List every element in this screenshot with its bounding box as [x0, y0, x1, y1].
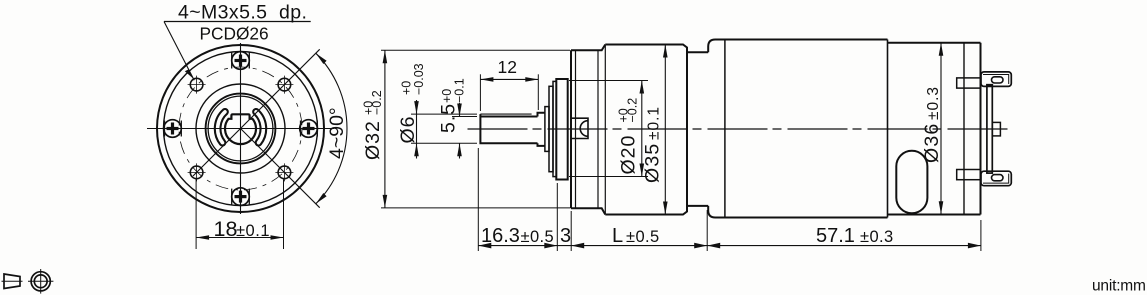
- screw right: [300, 120, 318, 138]
- M3 hole NW: [188, 76, 206, 94]
- motor can front seam: [724, 40, 726, 218]
- diagonal NE-SW construction line: [193, 49, 320, 176]
- svg-text:−0.2: −0.2: [626, 98, 640, 123]
- dimension Ø35 ±0.1: [642, 45, 668, 215]
- dimension 12: [480, 57, 538, 111]
- dimension 18±0.1: [196, 180, 283, 250]
- svg-text:±0.3: ±0.3: [860, 228, 894, 246]
- output shaft wing left: [215, 109, 228, 145]
- svg-text:5.5: 5.5: [438, 103, 460, 133]
- angular dimension 4~90°: [316, 53, 348, 204]
- ext line plate front: [556, 183, 558, 251]
- svg-text:Ø35: Ø35: [642, 143, 664, 183]
- boss ring inner: [208, 96, 273, 161]
- motor can step: [887, 40, 889, 218]
- leader underline for M3 label: [164, 21, 311, 23]
- can end seam: [963, 43, 965, 215]
- motor can end section: [888, 43, 981, 215]
- svg-text:±0.5: ±0.5: [626, 228, 660, 246]
- M3 hole NE: [275, 76, 293, 94]
- ext line motor end: [980, 220, 982, 251]
- can end edge: [980, 43, 982, 215]
- gearbox Ø35 body: [605, 45, 687, 215]
- axis centerline: [468, 128, 1011, 130]
- svg-text:PCDØ26: PCDØ26: [200, 24, 269, 44]
- flange outer circle: [157, 45, 324, 212]
- gearbox Ø32 section outline: [571, 45, 605, 215]
- terminal bottom: [957, 170, 1012, 186]
- spacer disc: [549, 86, 553, 171]
- spacer disc 2: [553, 81, 556, 176]
- screw bottom: [232, 188, 250, 206]
- dimension Ø6 +0/-0.03: [397, 63, 477, 158]
- svg-text:4~90°: 4~90°: [326, 107, 348, 159]
- svg-text:4~M3x5.5 dp.: 4~M3x5.5 dp.: [178, 2, 307, 24]
- svg-text:±0.1: ±0.1: [646, 106, 663, 140]
- boss ring outer: [206, 94, 276, 164]
- dimension 5.5 +0/-0.1: [438, 78, 477, 158]
- terminal top: [957, 72, 1012, 88]
- svg-text:L: L: [612, 225, 623, 247]
- gearbox internal seam 2: [597, 50, 599, 208]
- bottom dimension chain: [478, 148, 981, 251]
- boss circle: [196, 84, 285, 173]
- ext line shaft tip: [477, 148, 479, 251]
- svg-text:57.1: 57.1: [816, 225, 855, 247]
- svg-text:±0.3: ±0.3: [925, 86, 942, 120]
- ext line motor front: [706, 210, 708, 251]
- dimension Ø32 +0/-0.2: [362, 50, 570, 208]
- bearing boss semicircle: [571, 118, 588, 138]
- screw top: [232, 52, 250, 70]
- svg-text:12: 12: [498, 57, 517, 77]
- diagonal SE ray: [241, 129, 320, 208]
- gearbox step seam: [604, 45, 606, 215]
- flange rim circle: [164, 52, 318, 206]
- center bump: [992, 122, 1000, 135]
- vent hole oval: [896, 151, 927, 213]
- svg-text:−0.1: −0.1: [453, 78, 467, 103]
- M3 hole SE: [275, 163, 293, 181]
- first angle projection symbol: circles: [28, 269, 53, 294]
- svg-text:16.3: 16.3: [481, 225, 520, 247]
- svg-text:−0.2: −0.2: [370, 90, 384, 115]
- output shaft wing right: [253, 109, 266, 145]
- gearbox internal seam 1: [575, 50, 577, 208]
- leader line to NW hole: [164, 22, 194, 81]
- motor neck: [687, 52, 708, 206]
- svg-text:±0.5: ±0.5: [521, 228, 555, 246]
- output shaft profile center: [225, 114, 256, 144]
- svg-text:18: 18: [214, 217, 238, 241]
- output shaft side: [480, 113, 545, 146]
- svg-text:3: 3: [560, 225, 571, 247]
- PCD bolt circle (dashed): [179, 67, 302, 190]
- svg-text:unit:mm: unit:mm: [1092, 278, 1146, 295]
- screw left: [164, 120, 182, 138]
- centerline vertical: [240, 43, 242, 214]
- dimension Ø36 ±0.3: [921, 43, 943, 215]
- ext line gearbox face: [570, 211, 572, 251]
- svg-text:±0.1: ±0.1: [236, 222, 270, 240]
- leader arrowhead: [185, 69, 194, 79]
- motor can front and body: [708, 40, 887, 218]
- dimension Ø20 +0/-0.2: [569, 81, 648, 177]
- M3 hole SW: [188, 163, 206, 181]
- washer: [545, 107, 549, 152]
- end cap: [987, 85, 992, 173]
- svg-text:Ø36: Ø36: [921, 123, 943, 163]
- chain dimension line: [478, 245, 981, 247]
- svg-text:Ø20: Ø20: [618, 135, 640, 175]
- svg-text:Ø32: Ø32: [362, 120, 384, 160]
- gearbox front face: [570, 50, 572, 208]
- front plate Ø20: [556, 79, 567, 180]
- svg-text:−0.03: −0.03: [412, 63, 426, 95]
- svg-text:Ø6: Ø6: [397, 115, 419, 143]
- centerline horizontal: [147, 128, 334, 130]
- first angle projection symbol: frustum: [2, 274, 23, 289]
